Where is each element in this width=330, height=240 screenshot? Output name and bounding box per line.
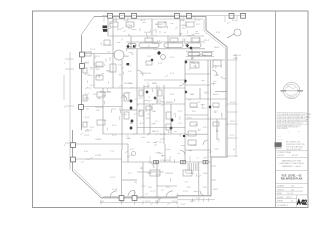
svg-text:4'-8": 4'-8": [170, 94, 175, 96]
svg-text:1'-9": 1'-9": [178, 111, 183, 113]
svg-text:4'-0": 4'-0": [112, 125, 117, 127]
svg-text:6'-4": 6'-4": [85, 117, 90, 119]
svg-text:6'-0": 6'-0": [232, 20, 237, 22]
stair treads: [188, 163, 197, 171]
svg-text:CORR 218: CORR 218: [160, 160, 171, 162]
svg-text:SHWR: SHWR: [166, 102, 173, 104]
svg-text:—: —: [288, 131, 290, 133]
svg-text:OF SHEETS: OF SHEETS: [277, 205, 288, 207]
svg-text:8'-0": 8'-0": [140, 123, 145, 125]
svg-text:ELEC: ELEC: [213, 94, 219, 96]
svg-text:LAV: LAV: [152, 110, 157, 113]
svg-text:OFF: OFF: [203, 173, 208, 175]
svg-text:—•: —•: [297, 131, 300, 133]
svg-text:12'-0": 12'-0": [183, 191, 189, 193]
svg-text:6'-0": 6'-0": [129, 155, 133, 157]
svg-text:2'-8": 2'-8": [151, 124, 155, 126]
svg-text:22'-6": 22'-6": [84, 99, 90, 101]
svg-text:A5: A5: [192, 61, 194, 64]
svg-text:10'-8": 10'-8": [112, 189, 118, 191]
svg-text:HALL: HALL: [126, 64, 132, 67]
svg-text:A5: A5: [128, 34, 130, 37]
leader ticks: [80, 16, 237, 208]
outer building wall: [73, 17, 228, 198]
svg-text:A5: A5: [141, 167, 143, 170]
svg-text:12'-4": 12'-4": [90, 49, 96, 51]
svg-text:OPEN: OPEN: [95, 139, 102, 141]
svg-text:6'-8": 6'-8": [100, 201, 105, 203]
svg-text:LINE: LINE: [233, 58, 238, 60]
dimension lines left: [64, 52, 74, 170]
svg-text:5'-6": 5'-6": [135, 99, 139, 101]
svg-text:TLT: TLT: [139, 98, 143, 100]
svg-text:CENTRAL CO RECORDS: CENTRAL CO RECORDS: [279, 162, 304, 165]
revision row rules: [277, 112, 306, 127]
svg-text:2'-8": 2'-8": [160, 139, 165, 141]
svg-text:CONSULT SEAL: CONSULT SEAL: [277, 151, 291, 154]
grid bubble top-right: [227, 29, 241, 38]
svg-text:CL: CL: [197, 157, 199, 159]
svg-text:CL: CL: [185, 172, 187, 174]
svg-text:11'-2": 11'-2": [90, 85, 96, 87]
svg-text:9'-6": 9'-6": [90, 127, 95, 129]
svg-text:A5: A5: [152, 103, 154, 106]
svg-text:18'-2": 18'-2": [190, 201, 196, 203]
svg-text:JOB NO 05-118: JOB NO 05-118: [277, 155, 298, 157]
svg-text:4'-2": 4'-2": [157, 40, 161, 42]
svg-text:OFFICE: OFFICE: [165, 173, 174, 175]
svg-text:TEL 916 355 9922: TEL 916 355 9922: [286, 149, 302, 151]
revision number margin ticks: [306, 114, 307, 125]
door arcs: [110, 70, 217, 204]
revision table rows: [277, 113, 312, 140]
svg-text:5'-6": 5'-6": [185, 45, 189, 47]
wall column symbols: [154, 160, 209, 163]
svg-text:B2: B2: [134, 46, 136, 48]
svg-text:B2: B2: [132, 54, 134, 56]
svg-text:6'-0": 6'-0": [216, 32, 221, 34]
svg-text:1/8"=1': 1/8"=1': [286, 197, 292, 199]
svg-text:DATE: DATE: [277, 192, 283, 195]
interior walls horizontal: [73, 36, 227, 186]
svg-text:FAIRFIELD - CALIF: FAIRFIELD - CALIF: [282, 165, 301, 168]
svg-text:3'-6": 3'-6": [146, 118, 151, 120]
svg-text:5'-0": 5'-0": [205, 157, 210, 159]
svg-text:SCALE: SCALE: [277, 196, 284, 199]
architect stamp: [281, 82, 304, 98]
svg-text:7'-0": 7'-0": [196, 198, 201, 200]
dimension lines bottom: [100, 198, 215, 205]
svg-text:2'-6": 2'-6": [96, 56, 101, 58]
fixtures and furniture: [83, 22, 221, 176]
svg-text:6'-2": 6'-2": [130, 149, 135, 151]
svg-text:7'-2": 7'-2": [85, 94, 90, 96]
svg-text:DRAWN: DRAWN: [277, 185, 285, 188]
sheet number A-02: [297, 200, 306, 204]
svg-text:OFFICE: OFFICE: [190, 107, 199, 109]
outer wall inner face: [74, 19, 225, 196]
svg-text:JAN: JAN: [190, 93, 195, 96]
svg-text:A5: A5: [119, 73, 121, 76]
detail texture marks: [84, 21, 226, 197]
svg-text:CONF: CONF: [126, 25, 133, 27]
svg-text:1'-6": 1'-6": [154, 36, 158, 38]
dimension line top: [102, 15, 246, 17]
svg-text:HALL: HALL: [126, 137, 132, 140]
svg-text:12'-0": 12'-0": [150, 191, 156, 193]
svg-text:2'-1": 2'-1": [178, 123, 183, 125]
svg-text:EXIT: EXIT: [213, 189, 219, 191]
svg-text:RECEPT: RECEPT: [155, 24, 165, 26]
svg-text:4'-0": 4'-0": [84, 151, 89, 153]
svg-text:9'-4": 9'-4": [120, 201, 125, 203]
room labels and dimension texts: [64, 20, 241, 206]
svg-text:OFF: OFF: [147, 173, 152, 175]
svg-text:CORR: CORR: [190, 145, 197, 147]
svg-text:B2: B2: [163, 102, 165, 104]
svg-text:2'-8": 2'-8": [103, 45, 107, 47]
small circle detail: [132, 152, 136, 156]
svg-text:19'-8": 19'-8": [84, 135, 90, 137]
svg-text:5'-0": 5'-0": [108, 45, 113, 47]
sheet title: [281, 175, 303, 181]
svg-text:5'-8": 5'-8": [85, 131, 90, 133]
svg-text:7'-6": 7'-6": [196, 20, 201, 22]
project title block: [279, 160, 304, 168]
svg-text:6'-0": 6'-0": [163, 134, 167, 136]
svg-text:6'-0": 6'-0": [118, 64, 122, 66]
svg-text:VEST: VEST: [214, 47, 220, 49]
svg-text:MATCH: MATCH: [233, 54, 241, 57]
svg-text:7'-4": 7'-4": [110, 151, 115, 153]
svg-text:2'-8": 2'-8": [204, 92, 208, 94]
svg-text:CL: CL: [203, 158, 205, 160]
svg-text:30'-4": 30'-4": [204, 40, 210, 42]
svg-text:STOR: STOR: [213, 107, 219, 109]
firm address lines: [277, 141, 305, 157]
title block field rules: [276, 151, 308, 208]
svg-text:8'-2": 8'-2": [196, 24, 201, 26]
svg-text:NEW FACILITY FOR: NEW FACILITY FOR: [282, 160, 302, 163]
svg-text:TLT: TLT: [153, 98, 157, 100]
svg-text:9'-6": 9'-6": [172, 201, 177, 203]
svg-text:ST-2: ST-2: [214, 149, 219, 151]
svg-text:SHEET: SHEET: [277, 201, 284, 203]
svg-text:9'-2": 9'-2": [230, 135, 235, 137]
svg-text:JM: JM: [291, 186, 294, 188]
small table: [161, 55, 166, 60]
plumbing fixtures dark: [103, 26, 212, 138]
svg-text:WAIT: WAIT: [124, 55, 130, 58]
svg-text:22'-4": 22'-4": [230, 102, 236, 104]
svg-text:A5: A5: [212, 66, 214, 69]
svg-text:10'-2": 10'-2": [155, 201, 161, 203]
svg-text:10.1.07: 10.1.07: [287, 193, 293, 195]
svg-text:6'-0": 6'-0": [128, 71, 132, 73]
column grid squares left: [71, 52, 85, 162]
svg-text:ENLARGED PLAN: ENLARGED PLAN: [281, 178, 303, 181]
svg-text:GALLERY: GALLERY: [196, 54, 207, 57]
svg-text:16'-8": 16'-8": [140, 20, 146, 22]
svg-text:9'-8": 9'-8": [147, 56, 152, 58]
svg-text:5'-4": 5'-4": [158, 63, 163, 65]
svg-text:4'-2": 4'-2": [183, 38, 187, 40]
svg-text:MECH: MECH: [152, 131, 159, 133]
svg-text:A5: A5: [221, 76, 223, 79]
round table: [114, 50, 124, 60]
svg-text:CASEWK: CASEWK: [152, 42, 162, 45]
svg-text:STOR: STOR: [95, 155, 101, 157]
svg-text:9'-8": 9'-8": [181, 204, 186, 206]
svg-text:——: ——: [277, 136, 281, 138]
svg-text:6'-4": 6'-4": [170, 73, 175, 75]
dimension lines right: [211, 55, 238, 180]
svg-text:UP: UP: [216, 131, 220, 133]
svg-text:MEN: MEN: [152, 83, 157, 85]
column grid squares bottom: [119, 196, 137, 201]
svg-text:B2: B2: [151, 107, 153, 109]
svg-text:6'-0": 6'-0": [170, 57, 175, 59]
micro text scatter: [97, 32, 224, 184]
svg-text:18'-0": 18'-0": [230, 121, 236, 123]
interior walls vertical: [94, 17, 217, 198]
svg-text:6 NO FIELD: 6 NO FIELD: [277, 128, 288, 130]
title block divider: [275, 11, 277, 208]
svg-text:———: ———: [277, 139, 283, 141]
svg-text:OPEN OFF: OPEN OFF: [100, 92, 112, 94]
firm logo: [275, 142, 282, 148]
svg-text:OFFICE: OFFICE: [95, 107, 104, 109]
svg-text:3'-0": 3'-0": [128, 173, 132, 175]
svg-text:OFFICE: OFFICE: [186, 173, 195, 175]
svg-text:CHECK: CHECK: [277, 189, 284, 191]
svg-text:14'-2": 14'-2": [112, 20, 118, 22]
column grid squares top: [108, 13, 246, 18]
svg-text:2'-4": 2'-4": [112, 135, 117, 137]
svg-text:6'-6": 6'-6": [203, 127, 208, 129]
svg-text:24'-6": 24'-6": [145, 201, 151, 203]
casework band: [128, 43, 212, 56]
title block small fields: [277, 185, 294, 207]
svg-text:22: 22: [291, 201, 293, 203]
sheet border frame: [33, 11, 309, 208]
svg-text:LOBBY: LOBBY: [180, 25, 188, 27]
svg-text:14'-6": 14'-6": [110, 177, 116, 179]
svg-text:3'-2": 3'-2": [86, 159, 91, 161]
svg-text:5'-2": 5'-2": [112, 109, 117, 111]
svg-text:CORR 205: CORR 205: [140, 73, 151, 75]
